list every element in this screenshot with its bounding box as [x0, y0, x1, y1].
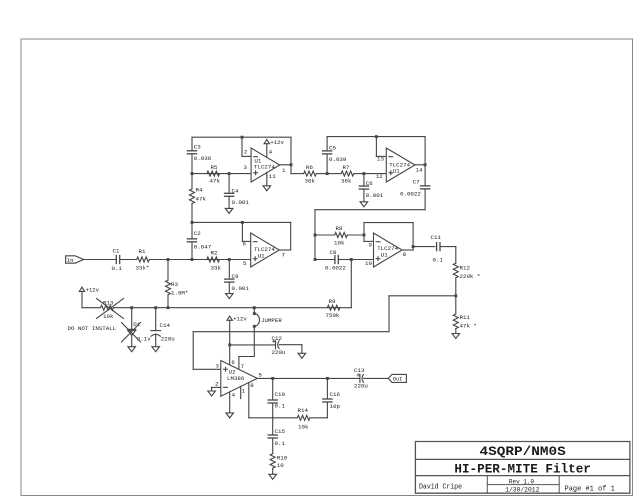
wire stage2 fb right side: [424, 137, 426, 165]
pin 6 label U2: [231, 359, 235, 366]
junction R3 top: [167, 258, 170, 261]
wire C12 line: [230, 344, 276, 346]
svg-text:C2: C2: [194, 230, 201, 237]
wire pin13 drop: [376, 137, 386, 157]
svg-text:Out: Out: [393, 376, 403, 383]
junction C8 left: [314, 258, 317, 261]
wire stage3 feedback rail: [192, 221, 291, 223]
pin 3 label: [244, 164, 248, 171]
junction C16 top: [326, 377, 329, 380]
ground pin2 U2: [208, 391, 216, 396]
resistor R2: [207, 249, 222, 271]
svg-text:JUMPER: JUMPER: [261, 317, 282, 324]
svg-text:R11: R11: [460, 314, 471, 321]
junction C8 right: [350, 258, 353, 261]
svg-text:8: 8: [250, 382, 254, 389]
wire C1 to R1: [120, 259, 136, 261]
svg-text:0.1: 0.1: [433, 256, 444, 263]
junction stage3 rail left: [191, 221, 194, 224]
wire C12 to ground: [279, 345, 302, 354]
resistor R10: [270, 454, 288, 469]
diode D1 zener (do not install): [128, 308, 152, 347]
op-amp U2 LM386: [221, 361, 257, 397]
ground C6: [360, 202, 368, 207]
pin 3 label U2: [216, 362, 220, 369]
svg-text:47k *: 47k *: [460, 322, 477, 329]
svg-text:C11: C11: [431, 234, 442, 241]
junction C4 top: [228, 172, 231, 175]
svg-text:7: 7: [282, 252, 286, 259]
ground C12: [298, 353, 306, 358]
pin 2 label: [244, 149, 248, 156]
capacitor C3: [187, 137, 211, 173]
svg-text:0.039: 0.039: [329, 156, 347, 163]
svg-text:TLC274: TLC274: [254, 163, 275, 170]
resistor R11: [453, 296, 477, 334]
wire stage2 output: [415, 164, 425, 166]
power +12v rail: [79, 287, 99, 308]
svg-text:0.1: 0.1: [275, 403, 286, 410]
svg-text:C9: C9: [232, 273, 239, 280]
wire stage3 output: [279, 249, 290, 251]
svg-text:C12: C12: [272, 335, 283, 342]
junction stage3 rail pin6: [241, 221, 244, 224]
junction stage1 rail pin2: [241, 136, 244, 139]
svg-text:+12v: +12v: [270, 139, 284, 146]
junction stage1 output: [290, 163, 293, 166]
svg-text:C16: C16: [330, 391, 341, 398]
label JUMPER: [261, 317, 282, 324]
capacitor C6: [359, 174, 383, 202]
op-amp U1A labels: [254, 158, 275, 171]
svg-text:8: 8: [403, 251, 407, 258]
pin 5 label U2: [258, 372, 262, 379]
wire stage4 output: [402, 249, 413, 251]
capacitor C10: [268, 378, 285, 409]
svg-text:1: 1: [282, 167, 286, 174]
svg-text:220u: 220u: [272, 349, 286, 356]
op-amp U1B labels: [389, 161, 410, 174]
pin 12 label: [376, 173, 383, 180]
svg-text:C3: C3: [194, 143, 201, 150]
title block row line 1: [415, 458, 630, 460]
wire pin6 drop: [242, 222, 250, 241]
svg-text:12: 12: [376, 173, 383, 180]
svg-text:4: 4: [269, 149, 273, 156]
junction jumper top: [253, 306, 256, 309]
wire C15 to R10: [272, 438, 274, 453]
cross-out R13: [97, 299, 124, 319]
svg-text:3: 3: [216, 362, 220, 369]
svg-text:220u: 220u: [354, 382, 368, 389]
svg-text:0.001: 0.001: [232, 285, 250, 292]
svg-text:R7: R7: [343, 164, 350, 171]
svg-text:C6: C6: [366, 180, 373, 187]
pin 1 label U2: [242, 387, 246, 394]
svg-text:C1: C1: [113, 248, 120, 255]
capacitor C16: [323, 391, 341, 410]
op-amp U1D minus: [376, 241, 380, 243]
svg-text:0.1: 0.1: [112, 265, 123, 272]
junction C5 node: [326, 172, 329, 175]
pin 10 label: [365, 260, 372, 267]
svg-text:R5: R5: [211, 164, 218, 171]
svg-text:0.001: 0.001: [232, 199, 250, 206]
svg-text:0.0022: 0.0022: [400, 191, 421, 198]
junction stage2 output: [424, 163, 427, 166]
ground R11: [452, 334, 460, 339]
wire R1 to node: [150, 259, 192, 261]
op-amp U1D plus: [376, 257, 380, 261]
wire R5 line: [192, 173, 251, 175]
op-amp U1C plus: [253, 257, 257, 261]
op-amp U2 labels: [227, 368, 245, 382]
pin 4 label U2: [232, 392, 236, 399]
wire C11 to R12: [440, 247, 456, 263]
capacitor C11: [431, 234, 444, 263]
svg-text:0.1: 0.1: [275, 440, 286, 447]
pin 8 label: [403, 251, 407, 258]
label David Cripe: [419, 483, 462, 491]
wire C10 to C15: [272, 403, 274, 435]
op-amp U2 minus: [224, 386, 228, 388]
op-amp U1C labels: [254, 246, 275, 259]
svg-text:C10: C10: [275, 391, 286, 398]
svg-text:C13: C13: [354, 367, 365, 374]
pin 14 label: [416, 166, 423, 173]
svg-text:0.001: 0.001: [366, 192, 384, 199]
wire output jog down: [290, 165, 292, 174]
svg-text:R14: R14: [298, 407, 309, 414]
wire C8 to pin10: [351, 259, 373, 261]
label DO NOT INSTALL: [68, 325, 117, 332]
resistor R4: [190, 174, 207, 223]
op-amp U1A: [251, 148, 280, 182]
svg-text:10k: 10k: [334, 240, 345, 247]
wire rail to R13: [82, 307, 100, 309]
junction C11 tee: [412, 245, 415, 248]
capacitor C15: [268, 428, 285, 447]
junction C12 tee: [228, 343, 231, 346]
wire pin2 to ground: [212, 387, 221, 391]
wire stage2 feedback rail: [327, 136, 425, 138]
capacitor C4: [225, 174, 250, 209]
svg-text:4: 4: [232, 392, 236, 399]
svg-text:4SQRP/NM0S: 4SQRP/NM0S: [480, 444, 567, 459]
svg-text:6: 6: [243, 240, 247, 247]
wire pin9 drop: [364, 235, 374, 241]
junction C2 bottom: [191, 258, 194, 261]
title block frame: [415, 442, 630, 494]
svg-text:11: 11: [269, 173, 276, 180]
title block col line 2: [558, 476, 560, 494]
wire input line to pin5: [192, 259, 251, 261]
junction R8 right: [363, 234, 366, 237]
svg-text:750k: 750k: [326, 312, 340, 319]
svg-text:2: 2: [244, 149, 248, 156]
pin 7 label: [282, 252, 286, 259]
pin 6 label: [243, 240, 247, 247]
svg-text:0.036: 0.036: [194, 155, 212, 162]
op-amp U1B plus: [389, 171, 393, 175]
svg-text:R13: R13: [103, 299, 114, 306]
label Rev 1.0: [509, 478, 534, 485]
svg-text:14: 14: [416, 166, 423, 173]
pin 1 stub: [240, 386, 242, 398]
title block row line 2: [415, 475, 630, 477]
pin 2 label U2: [215, 381, 219, 388]
junction divider: [454, 294, 457, 297]
svg-text:R8: R8: [336, 225, 343, 232]
wire C16 top lead: [326, 378, 328, 399]
junction R4 top: [191, 172, 194, 175]
svg-text:10k: 10k: [298, 423, 309, 430]
capacitor C2: [187, 222, 211, 259]
ground pin11 stage1: [263, 172, 276, 190]
ground pin4 U2: [226, 413, 234, 418]
wire R8 left col down: [314, 235, 316, 260]
capacitor C12: [272, 335, 286, 356]
svg-text:C4: C4: [232, 187, 239, 194]
capacitor C9: [225, 260, 250, 294]
svg-text:DO NOT INSTALL: DO NOT INSTALL: [68, 325, 117, 332]
wire R9 riser: [350, 260, 352, 308]
resistor R9: [326, 298, 340, 319]
svg-text:5: 5: [243, 260, 247, 267]
wire stage1 feedback rail: [192, 136, 291, 138]
jumper arc: [253, 312, 260, 328]
svg-text:9.1v: 9.1v: [137, 336, 151, 343]
resistor R8: [315, 225, 364, 247]
svg-text:9: 9: [369, 241, 373, 248]
ground R10: [269, 474, 277, 479]
svg-text:R1: R1: [139, 248, 146, 255]
op-amp U1B minus: [389, 156, 393, 158]
wire C7 to stage4 column: [315, 210, 425, 235]
junction D1 top: [130, 306, 133, 309]
wire stage4 fb rail: [364, 223, 413, 250]
svg-text:1: 1: [242, 387, 246, 394]
node Out flag: [388, 374, 406, 382]
svg-text:D1: D1: [133, 321, 140, 328]
title HI-PER-MITE Filter: [454, 462, 591, 477]
resistor R7: [327, 164, 364, 185]
svg-text:+12v: +12v: [86, 287, 100, 294]
pin 8 label U2: [250, 382, 254, 389]
ground C4: [225, 208, 233, 213]
svg-text:0.047: 0.047: [194, 244, 212, 251]
resistor R3: [166, 260, 189, 308]
wire pin4 to ground: [229, 392, 231, 413]
wire divider to LM386 pin3: [193, 296, 456, 370]
pin 7 label U2: [241, 363, 245, 370]
power pin4 stage1: [264, 139, 284, 158]
wire C13 to Out: [364, 377, 389, 379]
junction stage2 rail pin13: [375, 135, 378, 138]
svg-text:+12v: +12v: [233, 316, 247, 323]
wire LM386 output: [257, 377, 360, 379]
svg-text:10: 10: [277, 462, 284, 469]
op-amp U1A minus: [254, 156, 258, 158]
resistor R13 (do not install): [101, 299, 114, 320]
title 4SQRP/NM0S: [480, 444, 567, 459]
title block col line 1: [486, 476, 488, 494]
svg-text:R9: R9: [329, 298, 336, 305]
svg-text:10p: 10p: [330, 403, 341, 410]
svg-text:10k: 10k: [103, 313, 114, 320]
wire jumper stub: [253, 308, 255, 314]
svg-text:33k: 33k: [211, 264, 222, 271]
label Page: [565, 485, 616, 493]
wire C6 to pin12: [364, 173, 386, 175]
svg-text:R3: R3: [171, 281, 178, 288]
svg-text:2: 2: [215, 381, 219, 388]
svg-text:220k *: 220k *: [460, 273, 481, 280]
svg-text:C5: C5: [329, 145, 336, 152]
capacitor C14: [151, 308, 175, 347]
svg-text:47k: 47k: [210, 178, 221, 185]
svg-text:36k: 36k: [341, 178, 352, 185]
pin 9 label: [369, 241, 373, 248]
svg-text:U1: U1: [381, 251, 388, 258]
wire C11 line: [413, 246, 435, 248]
svg-text:13: 13: [377, 156, 384, 163]
junction C9 top: [228, 258, 231, 261]
wire R10 to ground: [272, 468, 274, 474]
junction C14 top: [154, 306, 157, 309]
svg-text:5: 5: [258, 372, 262, 379]
op-amp U1B: [386, 148, 415, 182]
cross-out D1: [122, 323, 141, 343]
wire jumper to pin7: [239, 326, 254, 369]
svg-text:1/30/2012: 1/30/2012: [505, 487, 539, 494]
op-amp U1C: [251, 233, 280, 267]
svg-text:6: 6: [231, 359, 235, 366]
wire pin2 drop: [242, 137, 251, 156]
svg-text:R12: R12: [460, 265, 471, 272]
pin 5 label: [243, 260, 247, 267]
op-amp U1A plus: [254, 171, 258, 175]
ground C9: [226, 294, 234, 299]
capacitor C5: [323, 137, 347, 174]
svg-text:U1: U1: [258, 252, 265, 259]
svg-text:1.0M*: 1.0M*: [171, 290, 188, 297]
svg-text:R10: R10: [277, 455, 288, 462]
ground C14: [152, 347, 160, 352]
svg-text:Page #1 of 1: Page #1 of 1: [565, 485, 616, 493]
junction C6 top: [362, 172, 365, 175]
svg-text:3: 3: [244, 164, 248, 171]
svg-text:LM386: LM386: [227, 375, 245, 382]
node In flag: [66, 256, 84, 264]
svg-text:C15: C15: [275, 428, 286, 435]
svg-text:36k: 36k: [305, 178, 316, 185]
wire pin8 down: [248, 383, 250, 418]
svg-text:HI-PER-MITE Filter: HI-PER-MITE Filter: [454, 462, 591, 477]
svg-text:Rev 1.0: Rev 1.0: [509, 478, 534, 485]
capacitor C8: [315, 249, 351, 271]
wire R13 to R9: [114, 307, 352, 309]
label date: [505, 487, 539, 494]
resistor R1: [136, 248, 150, 271]
wire R14 to C16: [311, 402, 328, 418]
svg-text:C14: C14: [160, 322, 171, 329]
wire R12 to node: [455, 278, 457, 296]
title block mid line: [487, 484, 559, 486]
svg-text:R4: R4: [196, 187, 203, 194]
svg-text:10: 10: [365, 260, 372, 267]
svg-text:David Cripe: David Cripe: [419, 483, 462, 491]
svg-text:7: 7: [241, 363, 245, 370]
resistor R6: [291, 164, 327, 185]
ground D1: [128, 347, 136, 352]
svg-text:In: In: [67, 257, 74, 264]
junction R3 bottom: [167, 306, 170, 309]
op-amp U2 plus: [224, 367, 228, 371]
svg-text:U1: U1: [393, 167, 400, 174]
svg-text:R2: R2: [211, 249, 218, 256]
resistor R12: [453, 263, 480, 280]
wire stage3 fb right side: [290, 222, 292, 250]
wire stage1 fb right side: [290, 137, 292, 165]
junction C10 top: [271, 377, 274, 380]
svg-text:R6: R6: [306, 164, 313, 171]
svg-text:33k*: 33k*: [136, 264, 150, 271]
wire R14 line: [249, 417, 297, 419]
wire In to C1: [84, 259, 117, 261]
op-amp U1C minus: [253, 241, 257, 243]
resistor R14: [297, 407, 310, 430]
pin 13 label: [377, 156, 384, 163]
pin 1 label: [282, 167, 286, 174]
svg-text:47k: 47k: [196, 195, 207, 202]
power +12v LM386: [227, 316, 247, 365]
svg-text:C8: C8: [330, 249, 337, 256]
capacitor C13: [354, 367, 368, 389]
junction R8 left: [314, 234, 317, 237]
op-amp U1D: [374, 233, 403, 267]
svg-text:0.0022: 0.0022: [325, 264, 346, 271]
wire stage1 output: [280, 164, 291, 166]
resistor R5: [207, 164, 221, 185]
op-amp U1D labels: [377, 245, 398, 258]
svg-text:C7: C7: [413, 178, 420, 185]
svg-text:220u: 220u: [161, 336, 175, 343]
capacitor C1: [112, 248, 123, 273]
capacitor C7: [400, 165, 430, 210]
